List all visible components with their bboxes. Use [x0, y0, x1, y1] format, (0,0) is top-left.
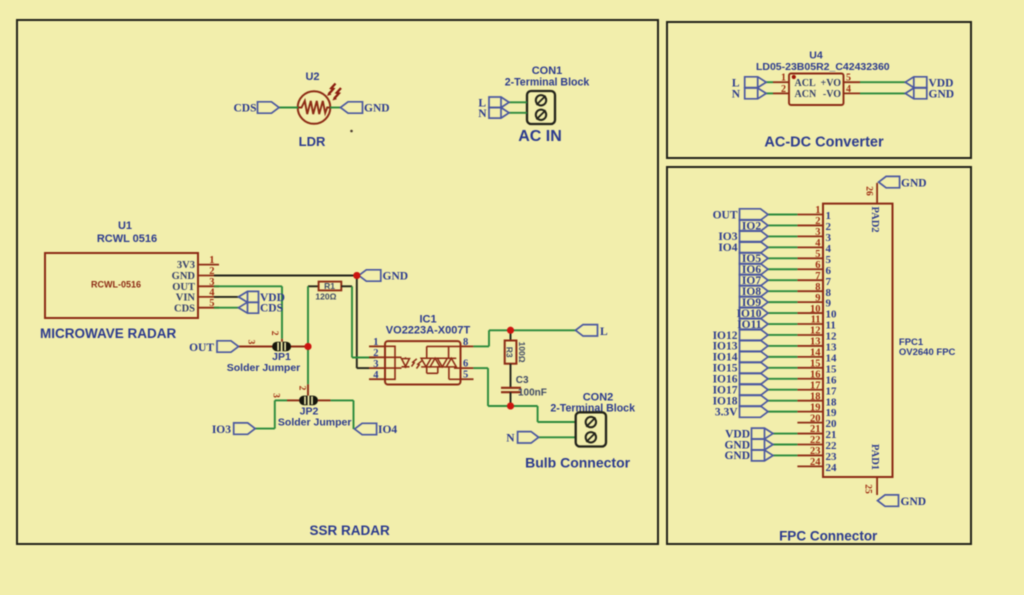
- svg-text:CON1: CON1: [532, 65, 563, 77]
- svg-text:24: 24: [810, 457, 821, 468]
- svg-text:21: 21: [810, 424, 821, 435]
- svg-text:PAD1: PAD1: [869, 444, 880, 470]
- svg-text:3V3: 3V3: [177, 260, 195, 271]
- svg-text:16: 16: [810, 369, 821, 380]
- svg-text:OUT: OUT: [713, 209, 738, 221]
- svg-text:2: 2: [269, 331, 279, 336]
- svg-text:3: 3: [373, 359, 378, 370]
- svg-text:OUT: OUT: [189, 342, 214, 354]
- svg-text:1: 1: [781, 73, 786, 84]
- svg-text:5: 5: [815, 249, 820, 260]
- svg-text:L: L: [600, 326, 608, 338]
- svg-text:U4: U4: [809, 50, 823, 62]
- svg-text:5: 5: [846, 73, 851, 84]
- svg-text:U2: U2: [305, 71, 319, 83]
- svg-text:GND: GND: [901, 496, 927, 508]
- svg-text:1: 1: [373, 337, 378, 348]
- svg-text:-VO: -VO: [823, 89, 841, 100]
- svg-text:100Ω: 100Ω: [517, 342, 527, 363]
- svg-text:2: 2: [209, 266, 214, 277]
- svg-text:3: 3: [246, 340, 256, 345]
- svg-text:U1: U1: [118, 220, 132, 232]
- svg-text:5: 5: [463, 370, 468, 381]
- svg-text:PAD2: PAD2: [869, 207, 880, 233]
- svg-text:26: 26: [864, 186, 874, 196]
- svg-text:+VO: +VO: [821, 78, 842, 89]
- svg-text:Bulb Connector: Bulb Connector: [525, 455, 631, 471]
- svg-text:2: 2: [373, 348, 378, 359]
- svg-text:6: 6: [463, 359, 468, 370]
- svg-text:5: 5: [209, 298, 214, 309]
- svg-text:RCWL 0516: RCWL 0516: [97, 233, 157, 245]
- svg-text:IO4: IO4: [718, 242, 737, 254]
- svg-text:AC-DC Converter: AC-DC Converter: [764, 135, 884, 151]
- svg-text:2: 2: [297, 386, 307, 391]
- svg-text:GND: GND: [364, 103, 390, 115]
- svg-text:14: 14: [810, 348, 821, 359]
- svg-text:13: 13: [810, 337, 821, 348]
- svg-text:GND: GND: [901, 177, 927, 189]
- svg-text:19: 19: [810, 402, 821, 413]
- svg-text:22: 22: [810, 435, 821, 446]
- svg-text:6: 6: [815, 260, 820, 271]
- svg-text:ACN: ACN: [795, 89, 817, 100]
- svg-text:18: 18: [810, 391, 821, 402]
- svg-text:24: 24: [826, 462, 838, 474]
- svg-text:3: 3: [209, 277, 214, 288]
- svg-text:C3: C3: [516, 375, 529, 386]
- svg-text:2-Terminal Block: 2-Terminal Block: [505, 77, 590, 89]
- svg-text:R1: R1: [324, 281, 335, 291]
- svg-text:Solder Jumper: Solder Jumper: [278, 417, 352, 429]
- svg-text:VDD: VDD: [929, 77, 954, 89]
- svg-text:12: 12: [810, 326, 821, 337]
- svg-text:120Ω: 120Ω: [315, 292, 336, 302]
- svg-text:CDS: CDS: [174, 303, 195, 314]
- svg-text:8: 8: [463, 337, 468, 348]
- svg-text:2: 2: [781, 84, 786, 95]
- svg-text:3: 3: [815, 227, 820, 238]
- svg-text:L: L: [732, 77, 740, 89]
- svg-text:VIN: VIN: [176, 293, 196, 304]
- svg-text:7: 7: [815, 271, 820, 282]
- svg-text:OV2640 FPC: OV2640 FPC: [899, 347, 956, 358]
- svg-text:4: 4: [815, 238, 821, 249]
- svg-text:ACL: ACL: [795, 78, 816, 89]
- svg-text:GND: GND: [929, 89, 955, 101]
- svg-text:RCWL-0516: RCWL-0516: [91, 280, 141, 290]
- svg-text:FPC Connector: FPC Connector: [779, 529, 878, 544]
- svg-text:20: 20: [810, 413, 821, 424]
- svg-text:3.3V: 3.3V: [715, 406, 738, 418]
- svg-text:N: N: [506, 433, 515, 445]
- svg-text:CDS: CDS: [233, 103, 256, 115]
- svg-text:LDR: LDR: [299, 134, 326, 149]
- svg-text:AC IN: AC IN: [518, 128, 562, 145]
- svg-text:OUT: OUT: [172, 282, 195, 293]
- svg-text:10: 10: [810, 304, 821, 315]
- svg-text:SSR RADAR: SSR RADAR: [309, 523, 390, 538]
- svg-text:N: N: [732, 89, 741, 101]
- svg-text:25: 25: [863, 484, 873, 494]
- svg-text:CDS: CDS: [260, 303, 283, 315]
- svg-text:MICROWAVE RADAR: MICROWAVE RADAR: [40, 326, 176, 341]
- svg-text:GND: GND: [172, 271, 196, 282]
- svg-text:17: 17: [810, 380, 821, 391]
- svg-text:100nF: 100nF: [518, 388, 547, 399]
- svg-text:1: 1: [209, 255, 214, 266]
- svg-text:3: 3: [271, 393, 281, 398]
- svg-text:GND: GND: [724, 450, 750, 462]
- svg-text:GND: GND: [383, 271, 409, 283]
- svg-text:11: 11: [811, 315, 821, 326]
- svg-text:R3: R3: [505, 347, 515, 358]
- svg-text:8: 8: [815, 282, 820, 293]
- svg-text:IO4: IO4: [378, 424, 397, 436]
- svg-text:N: N: [478, 108, 487, 120]
- svg-text:4: 4: [373, 370, 379, 381]
- svg-text:IO3: IO3: [212, 424, 231, 436]
- svg-text:4: 4: [846, 84, 851, 95]
- svg-text:15: 15: [810, 359, 821, 370]
- svg-text:Solder Jumper: Solder Jumper: [227, 362, 301, 374]
- svg-text:2: 2: [815, 216, 820, 227]
- svg-text:VO2223A-X007T: VO2223A-X007T: [386, 325, 471, 337]
- svg-text:9: 9: [815, 293, 820, 304]
- svg-text:23: 23: [810, 446, 821, 457]
- svg-text:LD05-23B05R2_C42432360: LD05-23B05R2_C42432360: [756, 61, 890, 73]
- svg-text:1: 1: [815, 205, 820, 216]
